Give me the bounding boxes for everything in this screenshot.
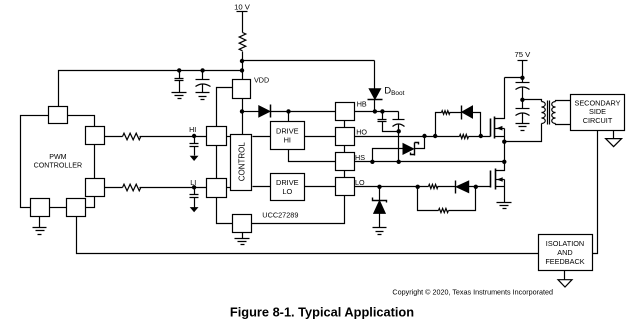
wire HB pin to bootstrap caps: [355, 111, 399, 113]
capacitor C4 (bootstrap bulk, polarized): [393, 112, 405, 162]
pin HB box: [336, 103, 355, 121]
wire R3 to LI pin box: [140, 187, 207, 189]
SECONDARY SIDE CIRCUIT box: [571, 95, 625, 131]
ground (zener): [373, 228, 387, 235]
ISOLATION AND FEEDBACK box: [539, 235, 593, 271]
svg-text:SECONDARY: SECONDARY: [574, 98, 620, 107]
wire DRIVE LO to LO pin: [305, 186, 336, 188]
pin VDD box: [233, 80, 251, 99]
svg-text:DRIVE: DRIVE: [276, 126, 299, 135]
resistor R3 (LI gate input): [123, 184, 141, 191]
node C1 junction: [177, 68, 181, 72]
node HO-schottky: [422, 134, 426, 138]
ground (secondary, open triangle): [606, 139, 622, 147]
DRIVE HI block: [271, 122, 305, 150]
node boot cap 1: [380, 109, 384, 113]
capacitor C2 (VDD bulk, polarized): [196, 71, 211, 93]
svg-text:10 V: 10 V: [234, 3, 251, 12]
wire HI/LI pin column chain: [216, 146, 218, 179]
capacitor C5 (HI filter): [190, 137, 199, 156]
resistor R7 (LO turn-off): [439, 208, 449, 212]
svg-text:LO: LO: [282, 187, 292, 196]
resistor R6 (LO gate, main): [429, 184, 438, 188]
node drive-hi feed: [286, 109, 290, 113]
resistor R1 (VDD series from 10 V): [239, 33, 246, 51]
capacitor C7 (bus divider top, polarized): [516, 83, 530, 109]
pin HI box: [207, 127, 227, 146]
node HS at switch node: [502, 160, 506, 164]
node VDD/diode junction: [240, 109, 244, 113]
svg-text:LI: LI: [190, 178, 196, 187]
node boot caps to HS: [397, 160, 401, 164]
PWM ground pin: [31, 199, 50, 217]
transistor Q2 (low-side MOSFET): [491, 162, 505, 203]
node LO net left: [416, 185, 420, 189]
wire HO line: [355, 136, 491, 138]
svg-text:HB: HB: [357, 99, 367, 108]
75 V supply terminal: [518, 61, 528, 83]
svg-text:CIRCUIT: CIRCUIT: [583, 116, 613, 125]
svg-text:UCC27289: UCC27289: [262, 211, 298, 220]
node 75V branch: [520, 76, 524, 80]
transformer T1 core: [548, 101, 550, 125]
diode DBoot: [368, 89, 383, 112]
svg-text:DBoot: DBoot: [384, 86, 404, 98]
ground (PWM): [33, 228, 47, 235]
pin VSS box: [233, 215, 252, 233]
node HI filter junction: [192, 134, 196, 138]
svg-text:AND: AND: [557, 248, 572, 257]
ground (C2): [196, 93, 210, 100]
wire PWM feedback down and across: [77, 217, 539, 254]
node boot cap join: [397, 129, 401, 133]
pin LI box: [207, 179, 227, 198]
wire HO parallel branch: [436, 113, 481, 137]
wire secondary ground stub: [613, 131, 615, 139]
resistor R4 (HO gate, main): [460, 134, 469, 138]
svg-text:75 V: 75 V: [514, 50, 531, 59]
wire HS line: [354, 161, 505, 163]
node DBoot cathode: [373, 109, 377, 113]
wire LO parallel branch: [418, 187, 476, 211]
svg-text:SIDE: SIDE: [589, 107, 606, 116]
svg-text:CONTROLLER: CONTROLLER: [34, 161, 82, 169]
svg-text:PWM: PWM: [49, 153, 66, 161]
capacitor C3 (bootstrap ceramic): [378, 112, 399, 132]
wire HI input line: [105, 136, 123, 138]
node switch node (primary return): [502, 140, 506, 144]
wire DRIVE HI to HS pin: [289, 150, 336, 162]
node HO net left: [433, 134, 437, 138]
wire LI input line: [105, 187, 123, 189]
svg-text:DRIVE: DRIVE: [276, 178, 299, 187]
capacitor C8 (bus divider bottom, polarized): [516, 109, 530, 124]
wire LO line: [354, 186, 491, 188]
PWM controller box: [21, 116, 95, 208]
wire VSS ground stub: [242, 233, 244, 239]
wire 75V to Q1 drain: [505, 77, 523, 79]
wire CONTROL to DRIVE HI: [253, 136, 271, 138]
wire R2 to HI pin box: [140, 136, 207, 138]
ground (C1): [172, 93, 187, 99]
pin HS box: [336, 153, 355, 171]
svg-text:CONTROL: CONTROL: [237, 142, 246, 182]
wire R1 to node A: [242, 52, 244, 61]
wire DRIVE HI to HO pin: [305, 136, 336, 138]
PWM feedback pin: [67, 199, 86, 217]
diode D3 (LO series): [456, 181, 469, 194]
10 V supply terminal: [237, 12, 248, 33]
node LI filter junction: [192, 185, 196, 189]
pin LO box: [336, 178, 355, 196]
wire CONTROL to DRIVE LO: [253, 186, 271, 188]
wire D1 to HB pin: [271, 111, 336, 113]
resistor R5 (HO turn-off): [442, 111, 450, 115]
wire secondary box to isolation box: [592, 131, 598, 254]
PWM top pin: [49, 107, 68, 124]
wire LI pin down to VSS pin: [217, 198, 233, 224]
svg-text:HI: HI: [284, 136, 291, 145]
DRIVE LO block: [271, 174, 305, 201]
svg-text:Copyright © 2020, Texas Instru: Copyright © 2020, Texas Instruments Inco…: [392, 287, 553, 296]
PWM HI pin: [86, 127, 105, 145]
transformer T1 secondary: [552, 101, 571, 125]
node B: [240, 68, 244, 72]
svg-text:Figure 8-1. Typical Applicatio: Figure 8-1. Typical Application: [230, 305, 414, 320]
node HO net right: [479, 134, 483, 138]
schottky D5 (HS clamp): [373, 137, 425, 162]
wire isolation ground stub: [564, 271, 566, 280]
capacitor C1 (VDD bypass): [175, 71, 184, 93]
svg-text:VDD: VDD: [254, 75, 269, 84]
wire HI pin to CONTROL: [227, 136, 231, 138]
wire node B left rail to PWM top pin: [59, 71, 243, 107]
pin HO box: [336, 128, 355, 146]
transformer T1 primary: [505, 100, 546, 142]
capacitor C6 (LI filter): [190, 188, 199, 208]
ground (VSS): [235, 239, 250, 245]
ground (Q2 source): [497, 203, 512, 209]
PWM LI pin: [86, 179, 105, 197]
transistor Q1 (high-side MOSFET): [491, 78, 505, 162]
wire VDD pin down to CONTROL: [242, 99, 244, 135]
wire LI pin to CONTROL: [227, 187, 231, 189]
diode D2 (HO turn-off): [462, 106, 473, 120]
svg-text:FEEDBACK: FEEDBACK: [545, 257, 584, 266]
ground arrow (HI filter): [190, 156, 199, 161]
svg-text:HO: HO: [356, 127, 367, 136]
node divider mid: [520, 98, 524, 102]
svg-text:LO: LO: [355, 178, 365, 187]
wire right pin column chain: [252, 121, 345, 224]
node LO net right: [474, 185, 478, 189]
node C2 junction: [200, 68, 204, 72]
ground (divider): [516, 124, 530, 131]
zener D4 (LO clamp): [373, 187, 387, 228]
wire feed down to DRIVE HI: [288, 112, 290, 122]
svg-text:HI: HI: [189, 125, 196, 134]
wire PWM ground pin stub: [39, 217, 41, 228]
ground (isolation, open triangle): [558, 280, 572, 287]
wire top rail node A to DBoot: [243, 60, 375, 62]
node schottky anode at HS: [370, 160, 374, 164]
wire VDD junction to diode D1: [243, 111, 259, 113]
svg-text:ISOLATION: ISOLATION: [546, 239, 584, 248]
svg-text:HS: HS: [355, 153, 365, 162]
wire node A down to VDD pin: [242, 61, 244, 80]
CONTROL block: [231, 135, 252, 191]
wire VDD pin left to HI pin column: [217, 88, 233, 127]
diode D1 (internal boot feed): [259, 105, 271, 118]
ground arrow (LI filter): [190, 207, 199, 212]
node A: [240, 59, 244, 63]
node LO-zener: [377, 185, 381, 189]
resistor R2 (HI gate input): [123, 133, 141, 140]
wire DBoot vertical anode: [374, 61, 376, 89]
